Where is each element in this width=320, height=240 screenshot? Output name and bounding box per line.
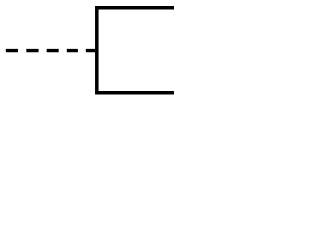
component box U1 (outline, open on right side) (97, 8, 174, 93)
wire (dashed lead into box, drawn dash by dash) (6, 49, 99, 52)
